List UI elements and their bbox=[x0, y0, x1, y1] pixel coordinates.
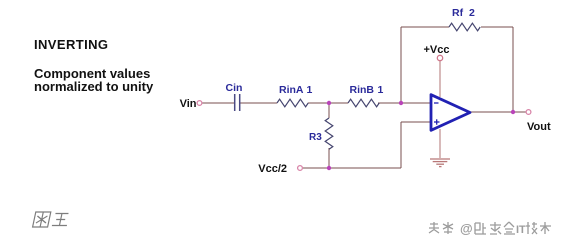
wire node A to R3 bbox=[328, 103, 330, 118]
junction node C bbox=[327, 166, 331, 170]
svg-text:@: @ bbox=[460, 221, 473, 236]
svg-text:R3: R3 bbox=[309, 132, 322, 143]
wire +Vcc to op-amp top bbox=[439, 61, 441, 97]
wire feedback right vertical bbox=[512, 27, 514, 112]
svg-text:Vin: Vin bbox=[180, 98, 197, 110]
wire to op-amp non-inverting input bbox=[401, 121, 430, 123]
wire node C to corner bbox=[329, 167, 401, 169]
figure label 图五 bbox=[33, 212, 70, 227]
svg-text:normalized to unity: normalized to unity bbox=[34, 79, 154, 94]
svg-text:Vcc/2: Vcc/2 bbox=[258, 163, 287, 175]
wire corner vertical up bbox=[400, 122, 402, 168]
watermark 头条@卧龙会IT技术 bbox=[429, 222, 453, 234]
svg-text:1: 1 bbox=[307, 84, 313, 96]
wire Vcc/2 terminal to node C bbox=[303, 167, 329, 169]
wire feedback top right bbox=[481, 26, 513, 28]
svg-text:Cin: Cin bbox=[226, 82, 243, 94]
resistor RinB bbox=[348, 99, 379, 107]
wire Cin to RinA bbox=[240, 102, 277, 104]
terminal +Vcc bbox=[437, 55, 442, 60]
svg-text:+Vcc: +Vcc bbox=[424, 44, 450, 56]
wire RinA to node A bbox=[308, 102, 329, 104]
resistor R3 bbox=[325, 118, 333, 149]
svg-text:Vout: Vout bbox=[527, 121, 551, 133]
svg-text:RinB: RinB bbox=[350, 84, 375, 96]
svg-text:Rf: Rf bbox=[452, 7, 464, 19]
wire op-amp bottom to ground bbox=[439, 129, 441, 158]
wire op-amp output to node D bbox=[470, 111, 513, 113]
svg-text:2: 2 bbox=[469, 7, 475, 19]
ground bbox=[430, 159, 450, 167]
wire R3 to node C bbox=[328, 148, 330, 168]
wire Vin to Cin bbox=[202, 102, 234, 104]
svg-text:IT: IT bbox=[516, 224, 526, 236]
pin plus of op-amp bbox=[434, 119, 440, 124]
capacitor Cin bbox=[235, 94, 240, 111]
wire node D to Vout terminal bbox=[513, 111, 526, 113]
wire node A to RinB bbox=[329, 102, 348, 104]
wire RinB to node B bbox=[378, 102, 401, 104]
svg-text:RinA: RinA bbox=[279, 84, 304, 96]
wire node B to op-amp inverting input bbox=[401, 102, 430, 104]
resistor RinA bbox=[277, 99, 308, 107]
op-amp U1 bbox=[431, 95, 470, 131]
resistor Rf bbox=[449, 23, 480, 31]
junction node A bbox=[327, 101, 331, 105]
wire feedback left vertical bbox=[400, 27, 402, 103]
svg-text:1: 1 bbox=[378, 84, 384, 96]
terminal Vout bbox=[526, 110, 531, 115]
junction node B bbox=[399, 101, 403, 105]
terminal Vin bbox=[197, 101, 202, 106]
svg-text:INVERTING: INVERTING bbox=[34, 37, 108, 52]
pin minus of op-amp bbox=[434, 102, 439, 104]
wire feedback top left bbox=[401, 26, 449, 28]
terminal Vcc/2 bbox=[298, 166, 303, 171]
junction node D bbox=[511, 110, 515, 114]
